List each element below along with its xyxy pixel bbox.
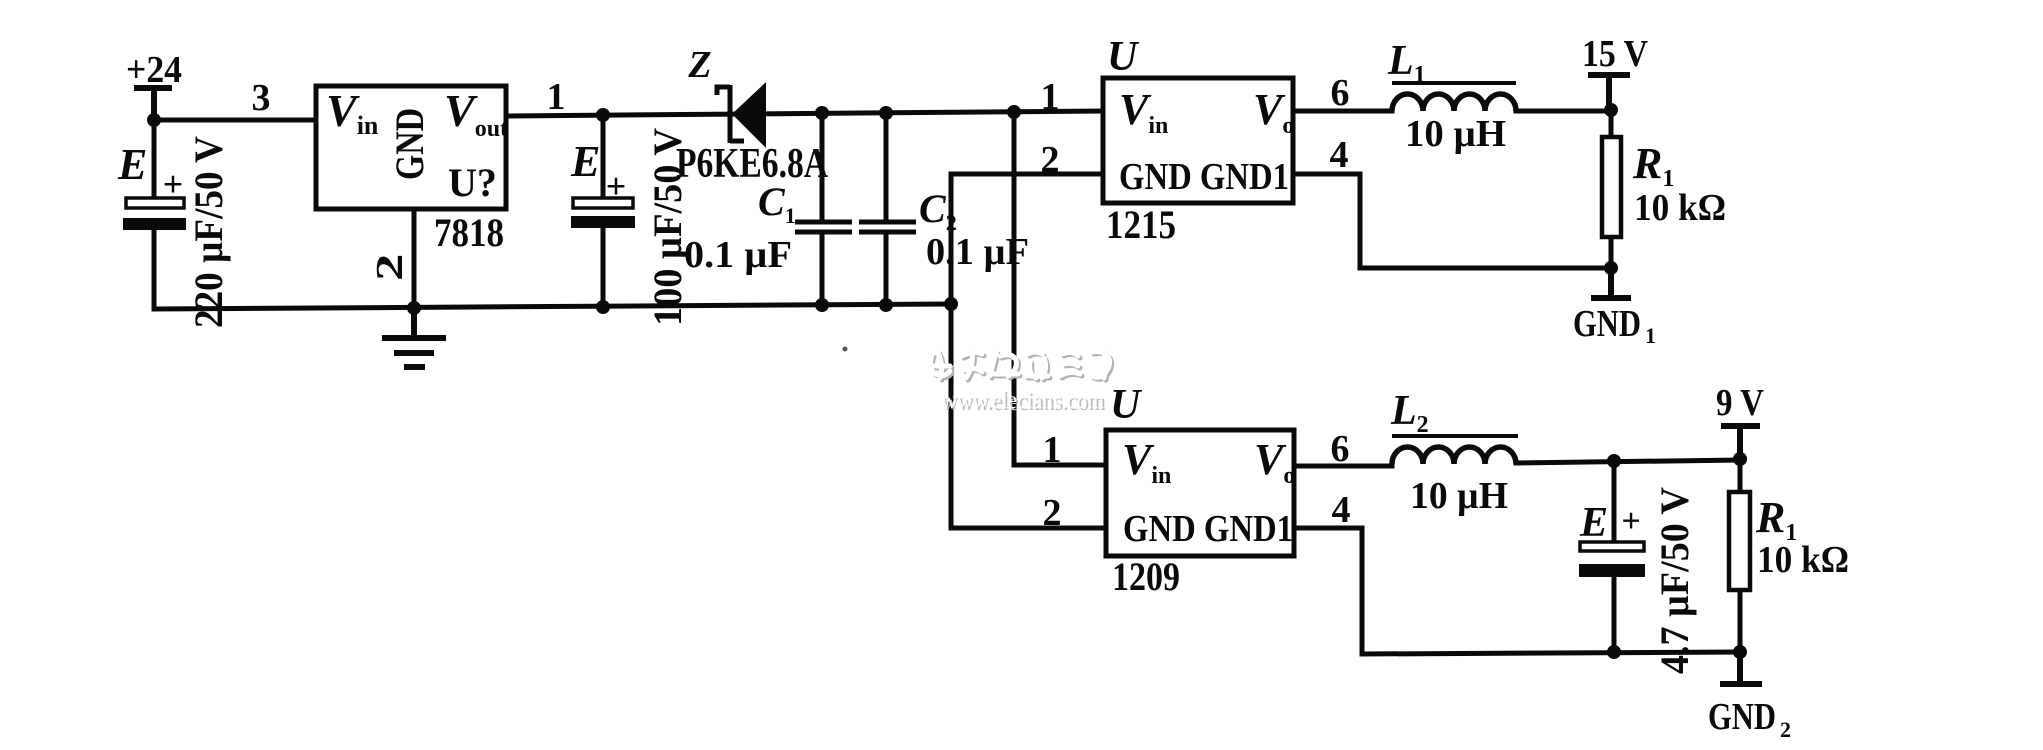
svg-text:10 µH: 10 µH [1405,113,1506,155]
junction dot 9V node [1733,452,1747,466]
wire vertical bus ground: 1215 pin2 down to 1209 pin2 [951,174,1106,528]
junction dot C2 bottom [879,298,893,312]
junction dot E3 bottom node [1607,645,1621,659]
wire R1b top lead [1738,459,1743,492]
inductor L1 overline [1392,81,1516,85]
svg-text:15 V: 15 V [1582,33,1648,75]
resistor R1a body [1602,137,1621,237]
svg-text:+24: +24 [126,49,182,91]
svg-text:2: 2 [1041,139,1060,181]
svg-text:1: 1 [1043,429,1062,471]
svg-text:1209: 1209 [1112,554,1180,599]
node 9V terminal [1724,426,1757,459]
wire top rail right: 7818 Vout pin 1 to U1215 Vin pin 1 [506,111,1103,116]
svg-text:2: 2 [1780,717,1791,742]
wire E1 capacitor top lead [152,120,157,198]
svg-text:4.7 µF/50 V: 4.7 µF/50 V [1652,487,1697,674]
module U 1209 box [1106,430,1294,556]
capacitor E3 4.7uF plates [1579,542,1645,577]
svg-text:4: 4 [1330,134,1349,176]
wire R1a bottom lead [1609,237,1614,268]
inductor L2 overline [1392,434,1518,438]
wire E1 capacitor bottom lead [152,230,157,309]
regulator U? 7818 box [316,86,506,209]
svg-text:220 µF/50 V: 220 µF/50 V [186,136,231,328]
junction dot R1a bottom node [1604,261,1618,275]
svg-text:2: 2 [369,253,411,281]
wire vertical bus Vin: top rail down to 1209 pin1 [1014,112,1106,465]
wire U1209 pin 4 return rail [1294,528,1740,654]
wire bottom ground rail [154,304,950,309]
svg-text:U: U [1110,382,1143,428]
wire R1a top lead [1609,110,1614,137]
svg-text:+: + [606,166,627,206]
wire top rail left: +24 node to 7818 Vin pin 3 [154,118,316,123]
junction dot C2 top [879,106,893,120]
svg-text:6: 6 [1331,428,1350,470]
capacitor E2 100uF plates [571,198,635,228]
svg-text:1: 1 [547,76,566,118]
wire L2 to 9V node [1516,460,1740,463]
junction dot C1 top [815,106,829,120]
svg-text:GND GND1: GND GND1 [1119,156,1289,198]
svg-text:4: 4 [1332,489,1351,531]
svg-text:www.elecians.com: www.elecians.com [941,387,1104,414]
svg-text:E: E [570,137,600,186]
svg-text:U: U [1107,34,1140,80]
junction dot C1 bottom [815,298,829,312]
svg-text:+: + [163,164,184,204]
svg-text:E: E [1579,500,1608,546]
svg-text:10 µH: 10 µH [1410,475,1508,517]
junction dot L2/E3 top node [1607,454,1621,468]
stray scan dot [843,347,848,352]
junction dot node +24/E1 [147,113,161,127]
watermark [930,350,1112,416]
wire E3 capacitor bottom lead [1612,577,1617,652]
svg-text:7818: 7818 [434,210,504,255]
junction dot E2 top [596,108,610,122]
junction dot top rail / Vin bus [1007,105,1021,119]
wire E3 capacitor top lead [1612,461,1617,543]
wire 7818 pin 2 to ground rail [412,209,417,308]
svg-text:E: E [117,140,147,189]
zener diode Z cathode bar [717,85,744,143]
ground GND2 stub [1723,652,1759,684]
svg-text:10 kΩ: 10 kΩ [1634,187,1726,229]
svg-text:2: 2 [1043,492,1062,534]
svg-text:0.1 µF: 0.1 µF [684,234,792,276]
svg-text:1215: 1215 [1106,202,1176,247]
svg-text:1: 1 [1645,323,1656,348]
wire E2 capacitor top lead [601,115,606,198]
capacitor C1 plates [795,222,852,232]
svg-text:GND GND1: GND GND1 [1123,508,1293,550]
wire U1215 pin 6 to L1 [1293,109,1392,114]
zener diode Z triangle [732,82,766,148]
wire L1 to 15V node [1516,109,1611,114]
wire E2 capacitor bottom lead [601,228,606,307]
junction dot ground rail / vertical bus [944,297,958,311]
svg-text:1: 1 [1041,76,1060,118]
svg-text:GND: GND [387,108,432,180]
svg-text:9 V: 9 V [1716,382,1764,424]
capacitor E1 220uF plates [123,198,186,230]
svg-text:0.1 µF: 0.1 µF [926,231,1029,273]
resistor R1b body [1729,492,1750,590]
svg-text:+: + [1621,503,1640,540]
svg-text:P6KE6.8A: P6KE6.8A [676,141,829,187]
junction dot 15V node [1604,103,1618,117]
capacitor C2 plates [859,222,916,232]
wire C2 leads [884,112,889,305]
ground symbol (earth) at 7818 pin 2 [382,308,446,367]
junction dot GND2 node [1733,645,1747,659]
inductor L2 [1392,447,1516,464]
svg-text:10 kΩ: 10 kΩ [1757,539,1849,581]
wire R1b bottom lead [1738,590,1743,652]
svg-text:6: 6 [1331,72,1350,114]
junction dot 7818 pin2 / ground rail [407,301,421,315]
svg-text:GND: GND [1573,303,1641,345]
node 15V terminal [1591,75,1627,110]
svg-text:GND: GND [1708,696,1776,738]
svg-text:3: 3 [252,77,271,119]
ground GND1 stub [1594,268,1628,298]
module U 1215 box [1103,78,1293,203]
wire C1 leads [820,113,825,306]
inductor L1 [1392,94,1516,111]
junction dot E2 bottom [596,300,610,314]
wire U1215 pin 4 return to R1a bottom [1293,174,1611,268]
svg-text:U?: U? [448,160,497,205]
wire U1209 pin 6 to L2 [1294,464,1392,469]
node +24 input terminal [137,88,169,120]
svg-text:Z: Z [687,44,711,86]
wire U1215 pin 2 to vertical bus [951,172,1103,177]
